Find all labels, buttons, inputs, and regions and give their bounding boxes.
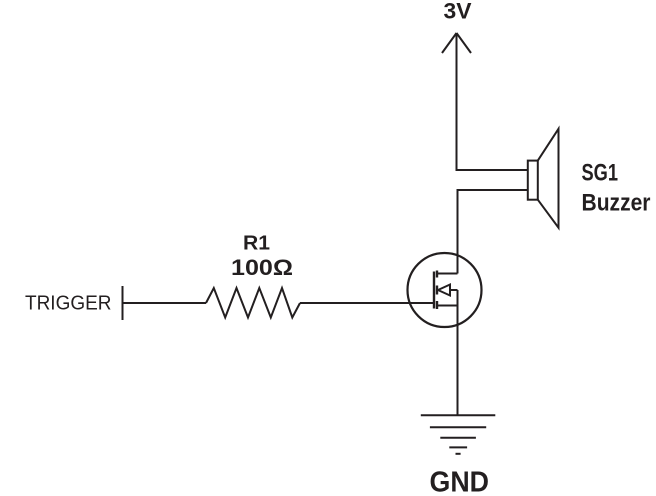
ground bar 3 xyxy=(440,437,476,439)
svg-text:R1: R1 xyxy=(243,232,270,254)
transistor Q1 channel dash bottom xyxy=(436,301,438,309)
wire resistor to gate xyxy=(300,302,434,304)
wire 3V rail down to buzzer top xyxy=(457,33,529,170)
ground bar 1 xyxy=(421,414,496,416)
svg-text:Buzzer: Buzzer xyxy=(582,190,651,217)
svg-text:3V: 3V xyxy=(444,0,472,24)
ground bar 5 xyxy=(456,453,461,455)
transistor Q1 envelope circle xyxy=(408,253,482,327)
transistor Q1 body arrow xyxy=(438,285,450,296)
ground bar 2 xyxy=(430,426,486,428)
svg-text:100Ω: 100Ω xyxy=(231,255,293,280)
wire trigger to resistor xyxy=(123,302,207,304)
svg-text:SG1: SG1 xyxy=(582,159,619,186)
transistor Q1 source lead xyxy=(437,305,458,307)
transistor Q1 drain lead xyxy=(437,273,458,275)
transistor Q1 body lead xyxy=(450,289,458,291)
transistor Q1 gate plate xyxy=(433,272,435,309)
wire buzzer bottom lead xyxy=(458,190,529,274)
buzzer SG1 horn xyxy=(538,129,559,228)
transistor Q1 channel dash middle xyxy=(436,286,438,295)
terminal tick TRIGGER xyxy=(122,286,124,320)
svg-text:TRIGGER: TRIGGER xyxy=(25,292,112,315)
transistor Q1 channel dash top xyxy=(436,271,438,278)
power supply arrow 3V xyxy=(442,33,471,53)
wire source down to ground xyxy=(457,290,459,415)
ground bar 4 xyxy=(449,446,467,448)
buzzer SG1 body xyxy=(528,161,538,200)
resistor R1 zigzag xyxy=(206,288,300,318)
svg-text:GND: GND xyxy=(430,467,490,496)
